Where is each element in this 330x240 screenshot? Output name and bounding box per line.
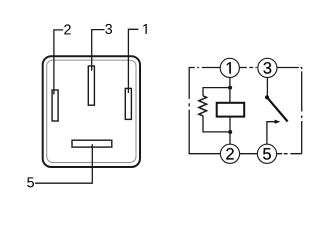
wire terminal 2 to terminal 5 [240,153,258,155]
relay coil [217,103,245,117]
resistor zigzag [199,96,207,116]
wire junction to resistor top [203,88,230,96]
wire terminal 1 to coil [229,78,231,103]
wire terminal 5 to fixed contact [267,122,275,145]
leader line pin 2 [54,30,63,95]
schematic case boundary: top-left chain segment [190,67,221,69]
leader line pin 1 [128,29,138,93]
pin 1 slot [125,88,131,119]
schematic case boundary: top-right segment [277,68,302,70]
schematic case boundary: bottom-right chain segment [277,153,302,155]
pin 5 slot [72,140,112,147]
switch pivot dot [265,95,269,99]
relay case inner outline [47,60,136,162]
schematic case boundary: top chain segment between 1 and 3 [240,67,257,69]
terminal 5 circle [257,144,276,163]
schematic case boundary: right chain border [301,71,303,153]
leader line pin 5 [35,144,92,183]
label 2 [64,24,71,34]
wire terminal 3 to switch pivot [266,78,268,98]
terminal 3 circle [258,58,277,77]
terminal 5 digit [263,148,271,160]
label 1 [143,24,146,34]
wire resistor bottom to junction [203,116,230,132]
label 5 [27,177,34,187]
label 3 [105,24,112,34]
pin 2 slot [52,90,58,121]
terminal 2 digit [226,148,234,160]
junction dot upper [228,86,232,90]
pin 3 slot [88,66,94,105]
terminal 1 digit [227,62,231,73]
terminal 3 digit [263,62,271,74]
schematic case boundary: bottom-left segment [189,153,220,155]
terminal 2 circle [220,144,239,163]
terminal 1 circle [220,58,239,77]
fixed contact arrowhead [275,120,281,124]
wire coil to terminal 2 [229,117,231,145]
junction dot lower [228,130,232,134]
switch blade [267,97,288,121]
relay case outer outline [43,56,140,167]
schematic case boundary: left chain border [188,67,190,154]
leader line pin 3 [92,30,105,71]
